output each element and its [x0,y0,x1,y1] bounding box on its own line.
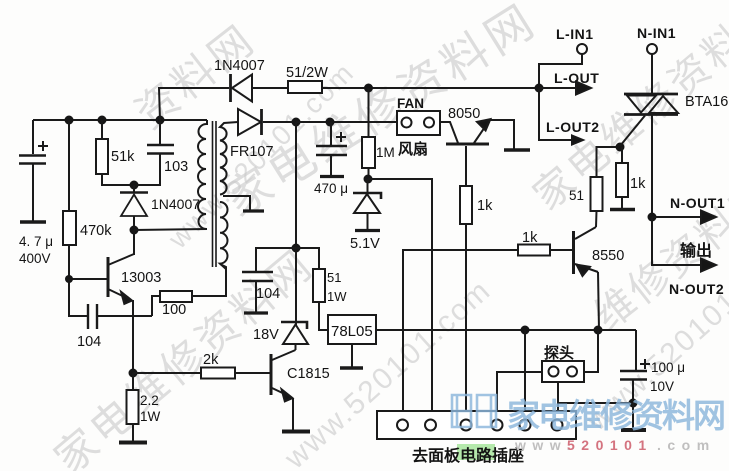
svg-text:10V: 10V [650,379,674,394]
connector socket (to panel board) [377,411,576,439]
terminal N-IN1 [647,44,657,94]
triac BTA16 [620,94,678,217]
diode D2 1N4007 (vertical) [120,185,148,230]
svg-text:N-OUT1: N-OUT1 [670,195,725,211]
svg-text:1k: 1k [477,198,493,214]
wire: fan rail [296,121,397,123]
svg-text:1W: 1W [140,409,161,424]
svg-text:L-IN1: L-IN1 [556,26,594,42]
transformer core [213,121,217,267]
resistor 2.2 1W [127,373,139,441]
svg-text:8050: 8050 [448,106,480,122]
wire: zener node to socket pin2 [368,179,432,411]
wire: rail branch riser to D1 [159,88,229,120]
capacitor 104 (mid) [242,272,273,313]
svg-text:N-IN1: N-IN1 [637,25,676,41]
wire: 5V rail [376,329,636,331]
svg-text:51/2W: 51/2W [286,65,328,81]
resistor 51k [96,120,133,185]
svg-text:78L05: 78L05 [331,323,373,340]
diode FR107 [238,109,296,135]
node: rail-470k junction [65,116,74,125]
resistor 51/2W [288,81,322,93]
node: L-OUT junction [535,84,544,93]
capacitor 103 [135,120,174,185]
wire: junction to 51 1W [296,248,319,269]
svg-text:8550: 8550 [592,248,624,264]
svg-text:2.2: 2.2 [140,393,159,408]
svg-text:13003: 13003 [121,270,161,286]
arrow N-OUT1 [652,211,716,224]
transistor Q1 13003 [69,254,134,304]
svg-text:去面板电路插座: 去面板电路插座 [412,446,524,465]
node: 100u negative junction [629,399,638,408]
node: 51k-103-diode junction [130,181,139,190]
wire: probe left pin to socket pin4 [497,372,542,411]
resistor 51 1W [313,269,328,330]
wire: probe bottom to 100u negative [558,402,633,404]
node: N-OUT1 junction [648,213,657,222]
resistor 1k (8050 base) [460,146,472,224]
svg-text:520101: 520101 [567,437,653,453]
svg-text:100: 100 [162,302,186,318]
regulator 78L05 [328,315,376,367]
capacitor 104 (base) [88,304,152,329]
svg-text:100 μ: 100 μ [651,360,685,375]
wire: rail end down to 100u [635,330,637,371]
wire: main top rail [33,119,207,121]
resistor R 100 [160,291,192,302]
svg-text:风扇: 风扇 [398,140,428,158]
svg-text:400V: 400V [19,251,51,266]
svg-text:N-OUT2: N-OUT2 [669,281,724,297]
svg-text:输出: 输出 [680,241,712,260]
svg-text:L-OUT2: L-OUT2 [546,119,600,135]
wire: 1k to 8550 base [550,249,572,251]
connector probe 探头 [542,361,584,382]
wire: socket pin1 riser and 8550 base line [403,250,518,411]
resistor 1M [362,88,375,179]
svg-text:1k: 1k [522,230,538,246]
svg-text:FR107: FR107 [230,144,274,160]
capacitor 100u 10V [620,359,650,403]
svg-text:51k: 51k [111,149,135,165]
node: base junction [65,275,73,283]
node: collector-primary junction [130,226,139,235]
diode D1 1N4007 (horizontal) [231,74,289,102]
svg-text:4. 7 μ: 4. 7 μ [19,234,53,249]
svg-text:1N4007: 1N4007 [214,58,265,74]
terminal L-IN1 [539,44,587,88]
svg-text:1M: 1M [376,145,395,160]
wire: junction to C104 mid [256,248,296,272]
svg-text:BTA16: BTA16 [685,94,728,110]
transformer T1 primary winding [198,120,207,229]
wire: probe bottom to socket pin6 [557,382,559,411]
wire: to ground [632,403,634,429]
svg-text:C1815: C1815 [287,366,330,382]
label 4.7u 400V [19,234,53,266]
wire: rail to probe right pin [584,330,598,372]
ground (C1815 emitter) [282,430,310,434]
node: 18V branch junction [292,244,301,253]
transistor Q4 8550 [574,227,600,330]
wire: secondary bottom to R100 [225,269,227,296]
wire: collector riser [133,230,135,255]
wire: C104 to R100 [152,296,160,316]
arrow N-OUT2 [652,217,716,272]
arrow L-OUT2 [539,88,583,145]
node: FR107 output [292,118,301,127]
zener 5.1V [353,179,381,231]
node: 1M tap on L rail [364,84,373,93]
wire: socket pin5 riser [524,330,526,411]
label 2.2 1W [140,393,161,424]
transistor Q2 C1815 [270,350,296,430]
resistor 1k (gate) [616,147,628,209]
arrow L-OUT [539,82,591,95]
node: zener junction [364,175,373,184]
connector FAN [397,111,440,135]
wire: junction to primary bottom [134,229,207,230]
transformer secondary winding upper [220,122,238,195]
transistor Q3 8050 [440,120,514,150]
svg-text:FAN: FAN [397,96,424,111]
svg-text:2k: 2k [203,352,219,368]
node: 5V rail / probe-5 junction [521,326,530,335]
wire: R100 to feedback winding [192,264,226,296]
svg-text:104: 104 [77,334,101,350]
resistor 51 (gate) [591,147,621,227]
svg-text:470 μ: 470 μ [314,181,348,196]
label 51 1W [327,270,347,304]
svg-text:1k: 1k [630,176,646,192]
zener 18V [281,321,308,350]
blue watermark: book logo [452,395,496,427]
svg-text:103: 103 [164,159,188,175]
svg-text:470k: 470k [80,223,112,239]
node: gate junction [616,143,625,152]
svg-text:1W: 1W [327,289,347,304]
ground (78L05) [340,366,363,369]
node: emitter-2k junction [129,369,138,378]
svg-text:5.1V: 5.1V [350,236,380,252]
wire: emitter drop [132,300,134,373]
node: rail-103 junction [156,116,165,125]
ground (8050 emitter) [504,148,530,151]
capacitor 4.7u 400V [19,120,48,222]
svg-text:家电维修资料网: 家电维修资料网 [507,397,728,434]
resistor 2k [133,368,270,379]
wire: base node down to C104 [69,279,88,316]
node: 470u tap [326,118,335,127]
ground (gate 1k) [610,208,635,211]
wire: socket pin3 riser [465,224,467,411]
wire: FR107 node riser down [295,122,297,321]
svg-text:1N4007: 1N4007 [151,196,200,212]
transformer secondary winding lower [220,202,228,269]
svg-text:L-OUT: L-OUT [554,70,599,86]
svg-text:.com: .com [657,437,716,453]
wire: L rail [322,87,539,89]
resistor 1k (8550 base) [518,245,550,256]
ground (100u) [621,428,646,432]
svg-text:51: 51 [327,270,341,285]
svg-text:104: 104 [256,286,280,302]
svg-text:探头: 探头 [544,344,574,362]
resistor 470k [63,120,76,279]
watermark url bottom [514,437,716,453]
svg-text:18V: 18V [253,327,279,343]
capacitor 470u [316,122,347,177]
svg-text:51: 51 [569,188,584,203]
transformer tap to core terminal [223,196,264,211]
node: rail-51k junction [98,116,107,125]
highlight behind 电路 [457,444,495,460]
node: 5V rail / 8550 emitter junction [594,326,603,335]
label 100u 10V [650,360,685,394]
ground (2.2 1W) [119,441,147,445]
